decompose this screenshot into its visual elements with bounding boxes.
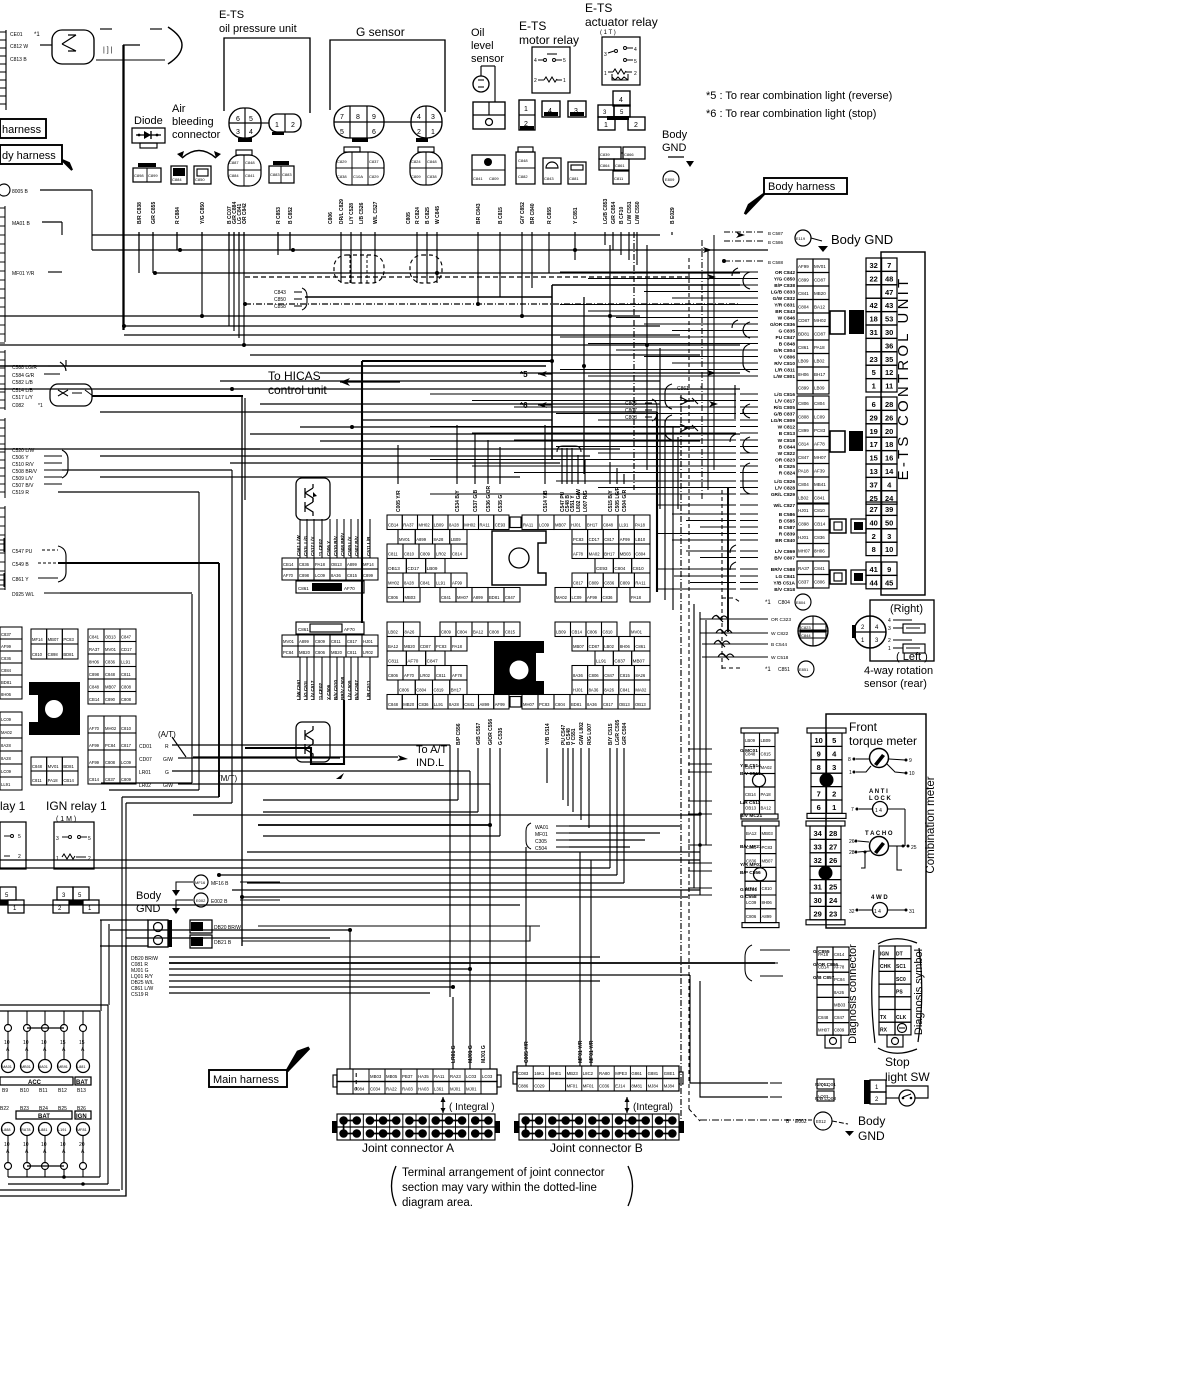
- svg-text:1: 1: [431, 129, 435, 136]
- svg-text:MF01 Y/R: MF01 Y/R: [578, 1040, 584, 1063]
- svg-text:MF81: MF81: [77, 1128, 87, 1132]
- left strip 4: [0, 418, 5, 498]
- svg-text:A899: A899: [347, 562, 357, 567]
- key white 1: [830, 311, 845, 334]
- svg-text:C806: C806: [589, 673, 600, 678]
- svg-text:C809: C809: [121, 777, 132, 782]
- svg-text:MF14: MF14: [363, 562, 374, 567]
- svg-text:B C815: B C815: [498, 207, 504, 224]
- svg-text:LB09: LB09: [427, 566, 438, 571]
- svg-text:MA02: MA02: [1, 730, 13, 735]
- svg-text:To A/T: To A/T: [416, 744, 447, 756]
- svg-text:diagram area.: diagram area.: [402, 1197, 473, 1209]
- svg-text:C814: C814: [452, 552, 463, 557]
- (M/T) label: [218, 773, 344, 783]
- grid2 bottom wires: [458, 748, 624, 883]
- svg-text:C898: C898: [89, 672, 100, 677]
- svg-text:CB14: CB14: [745, 792, 756, 797]
- svg-text:ACC: ACC: [28, 1080, 42, 1086]
- svg-text:IGN relay 1: IGN relay 1: [46, 799, 107, 813]
- wire stubs from connectors: [139, 232, 290, 250]
- svg-text:G/W: G/W: [163, 757, 173, 763]
- E-TS oil pressure unit label: [219, 9, 297, 35]
- relay connector right: [53, 887, 99, 913]
- svg-text:GND: GND: [662, 142, 687, 154]
- label R/Y LQ01: [770, 1079, 836, 1089]
- label *5 mid: [520, 370, 552, 379]
- svg-text:29: 29: [814, 909, 822, 918]
- svg-text:1: 1: [563, 78, 566, 84]
- svg-text:Diagnosis symbol: Diagnosis symbol: [913, 949, 925, 1035]
- svg-text:W C812: W C812: [778, 425, 796, 431]
- svg-text:3: 3: [888, 626, 891, 632]
- svg-text:C811: C811: [347, 650, 357, 655]
- svg-text:E804: E804: [796, 600, 806, 605]
- svg-text:BA12: BA12: [473, 630, 484, 635]
- svg-text:C814: C814: [834, 952, 845, 957]
- svg-text:BH17: BH17: [451, 688, 462, 693]
- connector C881b: [568, 162, 586, 184]
- svg-text:48: 48: [885, 274, 893, 283]
- svg-text:B10: B10: [20, 1088, 29, 1094]
- svg-text:1: 1: [275, 122, 279, 129]
- svg-text:PA18: PA18: [631, 595, 642, 600]
- svg-text:C510 R/V: C510 R/V: [12, 462, 34, 468]
- svg-text:OR C842: OR C842: [775, 270, 795, 276]
- svg-text:LC09: LC09: [315, 573, 326, 578]
- svg-text:LG C841: LG C841: [776, 574, 796, 580]
- wire bundle near control unit: [584, 232, 750, 509]
- grid1 top wires: [398, 425, 624, 484]
- svg-text:dy harness: dy harness: [2, 150, 56, 162]
- svg-text:C836: C836: [1, 656, 12, 661]
- svg-text:3: 3: [56, 836, 59, 842]
- svg-text:5: 5: [563, 58, 566, 64]
- svg-text:MB03: MB03: [370, 1074, 382, 1079]
- svg-text:AF78: AF78: [814, 442, 825, 447]
- svg-text:C810: C810: [121, 726, 132, 731]
- svg-text:Joint connector A: Joint connector A: [362, 1141, 454, 1155]
- svg-text:LG/R C809: LG/R C809: [771, 418, 796, 424]
- key white 4: [830, 570, 846, 584]
- svg-text:MB07: MB07: [48, 637, 60, 642]
- key black 2: [849, 431, 863, 451]
- svg-text:9: 9: [887, 565, 891, 574]
- 4-way sensor circle: [852, 616, 886, 648]
- svg-text:3: 3: [604, 52, 607, 58]
- svg-text:1: 1: [56, 856, 59, 862]
- svg-text:IND.L: IND.L: [416, 757, 444, 769]
- svg-text:29: 29: [870, 413, 878, 422]
- svg-text:LC03: LC03: [466, 1074, 477, 1079]
- svg-text:53: 53: [885, 315, 893, 324]
- svg-text:32: 32: [870, 261, 878, 270]
- svg-text:Main harness: Main harness: [213, 1074, 280, 1086]
- svg-text:2: 2: [634, 71, 637, 77]
- svg-text:C084: C084: [354, 1087, 365, 1092]
- svg-text:E-TS: E-TS: [219, 9, 244, 21]
- control unit pin table 1: [866, 258, 882, 271]
- BAT bus bar 2: [16, 1111, 91, 1120]
- svg-text:C814: C814: [798, 442, 809, 447]
- svg-text:HA03: HA03: [418, 1087, 429, 1092]
- svg-text:36: 36: [885, 341, 893, 350]
- joint connector B dots: [514, 1114, 684, 1140]
- svg-text:G/OR C556: G/OR C556: [488, 719, 494, 745]
- svg-text:LR02: LR02: [139, 783, 151, 789]
- svg-text:MA01 B: MA01 B: [12, 221, 30, 227]
- svg-text:G8E1: G8E1: [664, 1071, 676, 1076]
- integral label A: [441, 1097, 495, 1113]
- terminal note: [392, 1166, 633, 1209]
- svg-text:LQ01: LQ01: [818, 1082, 829, 1087]
- svg-text:SC0: SC0: [896, 977, 906, 983]
- svg-text:6: 6: [372, 129, 376, 136]
- svg-text:C861 Y: C861 Y: [12, 577, 29, 583]
- svg-text:*6: *6: [520, 401, 528, 410]
- svg-text:MH02: MH02: [419, 523, 431, 528]
- svg-text:OB13: OB13: [635, 702, 646, 707]
- label LR01: [139, 770, 193, 776]
- label G/B C857: [760, 975, 835, 981]
- svg-text:C836: C836: [299, 562, 310, 567]
- svg-text:LC09: LC09: [121, 760, 132, 765]
- svg-text:W C518: W C518: [771, 655, 789, 661]
- svg-text:BH17: BH17: [814, 372, 826, 377]
- connector C887 group: [228, 150, 261, 186]
- svg-text:C506 Y: C506 Y: [12, 455, 29, 461]
- svg-text:B C825: B C825: [425, 207, 431, 224]
- svg-text:OR C823: OR C823: [775, 458, 795, 464]
- svg-text:BR C843: BR C843: [775, 309, 795, 315]
- svg-text:MB03: MB03: [762, 831, 774, 836]
- svg-text:CD07: CD07: [139, 757, 152, 763]
- wire B C587 dashed: [724, 231, 784, 236]
- wire thick vertical x124: [122, 45, 124, 330]
- svg-text:CD87: CD87: [420, 644, 431, 649]
- svg-text:B C844: B C844: [779, 445, 796, 451]
- ground body GND right: [795, 230, 893, 252]
- svg-text:C817: C817: [603, 702, 614, 707]
- svg-text:7: 7: [851, 807, 854, 813]
- svg-text:BR/V C588: BR/V C588: [771, 567, 796, 573]
- label B C544: [702, 640, 787, 648]
- svg-text:B C813: B C813: [779, 431, 796, 437]
- svg-text:MJ01: MJ01: [450, 1087, 461, 1092]
- wire oil pressure link: [261, 122, 269, 124]
- G sensor connector 4-3-2-1: [411, 106, 442, 142]
- svg-text:LL91: LL91: [121, 660, 131, 665]
- svg-text:MF14: MF14: [32, 637, 43, 642]
- svg-text:Body harness: Body harness: [768, 181, 836, 193]
- body gnd connector: [148, 920, 172, 947]
- svg-text:LL91: LL91: [436, 581, 446, 586]
- To A/T IND.L label: [416, 744, 447, 769]
- svg-text:*1: *1: [765, 600, 771, 606]
- svg-text:C837: C837: [614, 659, 625, 664]
- svg-text:RA37: RA37: [403, 523, 414, 528]
- combination meter box: [826, 714, 926, 928]
- svg-text:C810: C810: [404, 552, 415, 557]
- svg-text:2: 2: [291, 122, 295, 129]
- svg-text:MF16 B: MF16 B: [211, 881, 229, 887]
- svg-text:C848: C848: [518, 158, 528, 163]
- svg-text:E-TS: E-TS: [519, 19, 546, 33]
- svg-text:R C855: R C855: [547, 207, 553, 224]
- svg-text:LC09: LC09: [1, 717, 12, 722]
- control unit code boxes 2: [797, 396, 813, 410]
- svg-text:RA11: RA11: [523, 523, 534, 528]
- svg-text:12: 12: [885, 368, 893, 377]
- To HICAS label: [268, 369, 327, 397]
- svg-text:2: 2: [832, 790, 836, 799]
- ANTI LOCK label: [869, 789, 892, 802]
- svg-text:Air: Air: [172, 103, 186, 115]
- svg-text:B C588: B C588: [768, 260, 784, 265]
- svg-text:24: 24: [829, 896, 838, 905]
- svg-text:4: 4: [888, 618, 891, 624]
- connector C839/C866: [599, 147, 645, 159]
- svg-text:C851: C851: [778, 667, 790, 673]
- meter pin table 2: [806, 821, 845, 826]
- svg-text:8: 8: [848, 757, 851, 763]
- control unit wire labels g2: [740, 392, 795, 498]
- svg-text:MF01: MF01: [567, 1084, 579, 1089]
- svg-text:8A28: 8A28: [449, 702, 459, 707]
- svg-text:EJ14: EJ14: [615, 1084, 625, 1089]
- transistor pair lower: [296, 722, 330, 762]
- svg-text:(M/T): (M/T): [218, 774, 237, 783]
- stack2 rows: [282, 622, 378, 657]
- svg-text:E119: E119: [796, 236, 806, 241]
- relay connector left: [0, 887, 24, 913]
- svg-text:A899: A899: [762, 914, 773, 919]
- label C549 B: [12, 562, 58, 568]
- svg-text:C809: C809: [315, 639, 326, 644]
- svg-text:CE93: CE93: [596, 566, 608, 571]
- svg-text:G/R C804: G/R C804: [774, 348, 796, 354]
- svg-text:L/B C526: L/B C526: [359, 202, 365, 224]
- svg-text:LQ03: LQ03: [818, 1094, 829, 1099]
- svg-text:AF70: AF70: [404, 673, 415, 678]
- left edge pin strip: [0, 30, 6, 110]
- svg-text:B/V C818: B/V C818: [774, 587, 795, 593]
- svg-text:BR C843: BR C843: [476, 203, 482, 224]
- wire B C584 dashed: [724, 240, 784, 245]
- bracket C547 group: [58, 546, 66, 582]
- svg-text:PC83: PC83: [814, 428, 826, 433]
- svg-text:RA11: RA11: [434, 1074, 445, 1079]
- svg-text:8HE1: 8HE1: [550, 1071, 561, 1076]
- wire to stop SW: [690, 975, 768, 1097]
- svg-text:C881: C881: [569, 176, 579, 181]
- svg-text:RA22: RA22: [386, 1087, 397, 1092]
- svg-text:C810: C810: [762, 886, 773, 891]
- left grid circle: [45, 700, 63, 718]
- svg-text:L/R C511: L/R C511: [740, 800, 761, 806]
- svg-text:bleeding: bleeding: [172, 116, 214, 128]
- svg-text:C836: C836: [419, 702, 430, 707]
- svg-text:G C535: G C535: [498, 728, 504, 745]
- wire feeds to control unit: [430, 272, 740, 589]
- svg-text:W C822: W C822: [778, 451, 796, 457]
- svg-text:C808: C808: [121, 685, 132, 690]
- svg-text:10: 10: [4, 1040, 10, 1046]
- svg-text:C806: C806: [746, 914, 757, 919]
- svg-text:Y/B C51A: Y/B C51A: [773, 581, 795, 587]
- svg-text:CLK: CLK: [896, 1015, 907, 1021]
- svg-text:C808: C808: [121, 697, 132, 702]
- left connector grid narrow col: [0, 627, 22, 790]
- svg-text:8A28: 8A28: [1, 756, 11, 761]
- svg-text:OB13: OB13: [745, 806, 757, 811]
- svg-text:LL91: LL91: [434, 702, 444, 707]
- svg-text:( Integral ): ( Integral ): [449, 1102, 495, 1113]
- svg-text:41: 41: [870, 565, 878, 574]
- svg-text:40: 40: [870, 518, 878, 527]
- svg-text:HA35: HA35: [418, 1074, 429, 1079]
- svg-text:LG/B C833: LG/B C833: [771, 290, 796, 296]
- svg-text:C804: C804: [798, 482, 809, 487]
- meter vertical bundle: [694, 604, 706, 895]
- svg-text:C847: C847: [604, 673, 615, 678]
- svg-text:C810: C810: [814, 508, 825, 513]
- key white 2: [830, 431, 845, 452]
- svg-text:MA02: MA02: [556, 595, 568, 600]
- rotation connector C822: [798, 616, 828, 646]
- svg-text:LR02: LR02: [420, 673, 431, 678]
- DB21 connector: [190, 926, 530, 948]
- svg-text:BD81: BD81: [571, 702, 582, 707]
- svg-text:8A36: 8A36: [331, 573, 341, 578]
- svg-text:2: 2: [888, 638, 891, 644]
- svg-text:SC1: SC1: [896, 964, 906, 970]
- svg-text:C811: C811: [388, 659, 399, 664]
- svg-text:C514 Y/B: C514 Y/B: [543, 490, 549, 512]
- svg-text:B13: B13: [77, 1088, 86, 1094]
- svg-text:MH07: MH07: [818, 1028, 830, 1033]
- label R/B LQ03: [770, 1091, 836, 1102]
- svg-text:20: 20: [885, 427, 893, 436]
- svg-text:8H06: 8H06: [798, 372, 809, 377]
- svg-text:( 1 T ): ( 1 T ): [600, 30, 616, 36]
- svg-text:DB20 BR/W: DB20 BR/W: [214, 925, 241, 931]
- svg-text:C848: C848: [388, 702, 399, 707]
- svg-text:RA03: RA03: [402, 1087, 413, 1092]
- svg-text:L/G C816: L/G C816: [774, 392, 795, 398]
- svg-text:V C806: V C806: [779, 355, 795, 361]
- svg-text:RA37: RA37: [798, 566, 810, 571]
- svg-text:*1: *1: [765, 667, 771, 673]
- svg-text:AF99: AF99: [620, 537, 631, 542]
- body harness callout: [745, 178, 847, 214]
- body GND label bottom right: [858, 1114, 885, 1143]
- svg-text:C806: C806: [388, 595, 399, 600]
- svg-text:8A26: 8A26: [834, 990, 845, 995]
- svg-text:AF99: AF99: [89, 743, 100, 748]
- svg-text:PC84: PC84: [105, 743, 116, 748]
- svg-text:OB13: OB13: [388, 566, 400, 571]
- svg-text:C804: C804: [778, 600, 790, 606]
- svg-text:C005 Y/R: C005 Y/R: [524, 1041, 530, 1063]
- svg-text:B C587: B C587: [779, 525, 796, 531]
- svg-text:LC09: LC09: [814, 415, 825, 420]
- svg-text:10: 10: [4, 1142, 10, 1148]
- relay box left partial: [0, 822, 26, 869]
- svg-text:CE01: CE01: [10, 32, 23, 38]
- svg-text:8: 8: [356, 114, 360, 121]
- svg-text:L881: L881: [77, 1065, 85, 1069]
- ground 8005: [0, 184, 92, 196]
- svg-text:10: 10: [885, 545, 893, 554]
- svg-text:BAT: BAT: [38, 1114, 50, 1120]
- svg-text:Diode: Diode: [134, 115, 163, 127]
- svg-text:MB03: MB03: [834, 1002, 846, 1007]
- svg-text:C305: C305: [535, 839, 547, 845]
- svg-text:BR C840: BR C840: [775, 538, 795, 544]
- svg-text:C805: C805: [406, 212, 412, 224]
- svg-text:1: 1: [832, 803, 836, 812]
- svg-text:L/W C551: L/W C551: [627, 201, 633, 224]
- svg-text:5: 5: [832, 736, 836, 745]
- grid2 cpu circle: [510, 661, 529, 680]
- svg-text:C808: C808: [798, 415, 809, 420]
- svg-text:B/V MC21: B/V MC21: [740, 813, 762, 819]
- svg-text:OR C842: OR C842: [242, 203, 248, 224]
- DB20 connector: [190, 920, 540, 933]
- actuator relay connector 1: [598, 117, 615, 130]
- svg-text:C815: C815: [620, 673, 631, 678]
- svg-text:C082: C082: [12, 403, 24, 409]
- svg-text:actuator relay: actuator relay: [585, 15, 658, 29]
- svg-text:L/V C828: L/V C828: [775, 486, 796, 492]
- svg-text:CE93: CE93: [495, 523, 506, 528]
- svg-text:19: 19: [870, 427, 878, 436]
- svg-text:C843: C843: [544, 176, 554, 181]
- svg-text:BA12: BA12: [746, 831, 757, 836]
- stack wires up: [300, 519, 370, 558]
- svg-text:R: R: [165, 744, 169, 750]
- meter code col 1: [741, 728, 778, 733]
- svg-text:C847: C847: [427, 659, 438, 664]
- svg-text:CB14: CB14: [388, 523, 399, 528]
- svg-text:LL91: LL91: [619, 523, 629, 528]
- svg-text:MV01: MV01: [631, 630, 643, 635]
- svg-text:section may vary within the do: section may vary within the dotted-line: [402, 1182, 597, 1194]
- svg-text:8A28: 8A28: [1, 743, 11, 748]
- svg-text:8A26: 8A26: [604, 688, 614, 693]
- body GND label left: [136, 890, 162, 915]
- svg-text:OB13: OB13: [331, 562, 342, 567]
- svg-text:Body GND: Body GND: [831, 232, 893, 247]
- svg-text:DR/L C829: DR/L C829: [339, 199, 345, 224]
- svg-text:34: 34: [814, 829, 823, 838]
- svg-text:A899: A899: [473, 595, 483, 600]
- svg-text:C036: C036: [599, 1084, 610, 1089]
- G sensor box: [330, 40, 445, 112]
- svg-text:C829: C829: [337, 159, 347, 164]
- svg-text:E851: E851: [799, 667, 809, 672]
- svg-text:B C825: B C825: [779, 464, 796, 470]
- svg-text:10: 10: [60, 1142, 66, 1148]
- svg-text:C814: C814: [89, 777, 100, 782]
- svg-text:MH07: MH07: [523, 702, 535, 707]
- svg-text:RA11: RA11: [635, 581, 646, 586]
- diagnosis connector table: [817, 947, 849, 1035]
- svg-text:MB23: MB23: [567, 1071, 579, 1076]
- joint connector A dots: [332, 1114, 500, 1140]
- To A/T arrow: [193, 755, 408, 761]
